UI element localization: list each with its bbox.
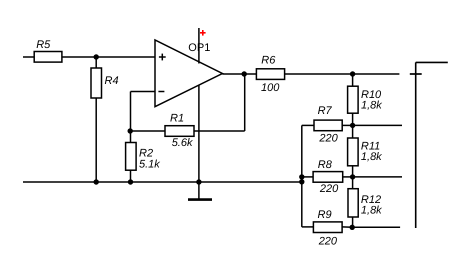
wire R1 to feedback corner: [194, 130, 245, 132]
resistor R7: [314, 105, 342, 145]
wire R7 right lead: [342, 124, 352, 126]
node junction R4 on bus: [94, 179, 99, 184]
node junction at R4 top: [94, 54, 99, 59]
resistor R9: [313, 209, 342, 247]
wire R9 right lead: [342, 226, 352, 228]
svg-text:220: 220: [319, 183, 339, 195]
wire R8 right lead: [343, 176, 353, 178]
wire R5 to op-amp noninverting input: [62, 56, 155, 58]
svg-text:R6: R6: [261, 55, 276, 67]
resistor R8: [313, 159, 343, 195]
svg-text:1,8k: 1,8k: [361, 151, 382, 163]
wire tap 4 to right: [352, 226, 400, 228]
resistor R11: [348, 138, 383, 166]
svg-text:100: 100: [261, 82, 280, 94]
node junction R2 on bus: [128, 179, 133, 184]
wire R7 left lead: [302, 124, 314, 126]
node junction R10 top: [350, 71, 355, 76]
resistor R10: [348, 86, 383, 113]
wire tap 3 to right: [353, 176, 402, 178]
wire R11 bottom lead: [352, 166, 354, 177]
wire R4 top lead: [95, 57, 97, 68]
node junction tap 2: [350, 123, 355, 128]
wire R9 left lead: [302, 226, 314, 228]
wire R6 to right terminal: [285, 73, 400, 75]
svg-text:R9: R9: [318, 209, 332, 221]
resistor R6: [256, 55, 284, 95]
connector terminal tick: [410, 73, 422, 75]
op-amp negative supply pin to ground: [198, 85, 200, 199]
svg-text:R5: R5: [36, 39, 51, 51]
svg-text:1,8k: 1,8k: [361, 204, 382, 216]
wire R2 top lead: [130, 131, 132, 143]
wire R4 bottom lead to ground bus: [95, 98, 97, 182]
svg-text:R7: R7: [318, 105, 333, 117]
svg-text:220: 220: [318, 133, 338, 145]
resistor R5: [34, 39, 62, 62]
node junction output/feedback: [242, 71, 247, 76]
svg-text:5.1k: 5.1k: [139, 158, 160, 170]
resistor R2: [126, 143, 161, 171]
svg-text:R4: R4: [105, 75, 119, 87]
wire feedback vertical: [244, 74, 246, 131]
wire ground bus: [23, 181, 302, 183]
wire R12 top lead: [352, 177, 354, 189]
wire R12 bottom lead: [352, 217, 354, 227]
op-amp OP1: [155, 40, 222, 107]
connector bracket: [416, 62, 448, 228]
ground: [188, 198, 212, 201]
wire tap 2 to right: [353, 124, 402, 126]
wire R2 bottom lead: [130, 170, 132, 182]
op-amp positive supply pin: [198, 28, 200, 64]
resistor R12: [348, 189, 382, 217]
wire left ladder vertical: [301, 125, 303, 226]
wire input to R5: [23, 56, 34, 58]
wire R10 bottom lead: [352, 113, 354, 125]
wire R11 top lead: [352, 125, 354, 138]
node junction R8 on ladder: [299, 174, 304, 179]
wire R10 top lead: [352, 74, 354, 86]
resistor R4: [91, 68, 119, 98]
node junction tap 4: [350, 225, 355, 230]
node junction inverting node: [128, 128, 133, 133]
svg-text:R8: R8: [318, 159, 333, 171]
svg-text:220: 220: [318, 235, 338, 247]
wire R8 left lead: [302, 176, 313, 178]
svg-text:R1: R1: [170, 113, 184, 125]
resistor R1: [165, 113, 194, 149]
supply plus symbol: [200, 30, 206, 36]
wire inverting input: [131, 92, 156, 132]
svg-text:5.6k: 5.6k: [172, 137, 193, 149]
svg-text:1,8k: 1,8k: [361, 99, 382, 111]
node junction tap 3: [350, 174, 355, 179]
wire op-amp output: [222, 73, 256, 75]
node junction bus end: [299, 179, 304, 184]
wire node to R1: [131, 130, 166, 132]
node junction supply pin on bus: [196, 179, 201, 184]
